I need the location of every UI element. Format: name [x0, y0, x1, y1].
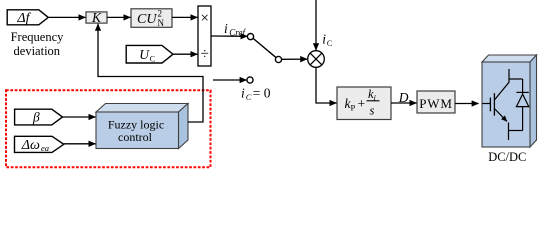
svg-text:U: U: [139, 47, 150, 62]
label D: [398, 90, 409, 105]
svg-text:CU: CU: [137, 12, 157, 27]
wire CU2N to multiplier: [172, 16, 198, 18]
switch pole circle: [275, 56, 281, 62]
wire multiplier output iCref: [211, 35, 248, 37]
label iCref: [224, 21, 246, 38]
switch contact circle top: [247, 34, 253, 40]
diode D1: [516, 79, 528, 131]
IGBT Q1 body bar: [493, 93, 495, 115]
wire iC from top: [315, 0, 317, 50]
IGBT Q1 gate lead: [482, 103, 490, 105]
wire K to CU2N: [107, 16, 131, 18]
PI controller block kP + ki/s: [337, 87, 391, 120]
svg-text:β: β: [32, 109, 40, 124]
multiply-divide block: [198, 6, 211, 66]
svg-text:N: N: [158, 18, 165, 28]
svg-text:÷: ÷: [201, 47, 209, 63]
svg-text:Δω: Δω: [21, 138, 40, 153]
wire fuzzy feedback to K: [98, 24, 203, 122]
multiplier mixer circle: [308, 51, 325, 68]
svg-text:Frequency: Frequency: [11, 30, 65, 44]
label DC/DC: [488, 150, 526, 164]
PWM block: [417, 91, 455, 113]
svg-text:deviation: deviation: [14, 44, 61, 58]
wire β to fuzzy: [63, 116, 96, 118]
svg-text:PWM: PWM: [419, 96, 452, 111]
input tag UC: [126, 45, 173, 63]
switch blade: [253, 38, 276, 57]
input tag β: [15, 109, 63, 125]
input tag Δf: [7, 10, 48, 26]
block CU²N: [131, 9, 172, 29]
label Frequency deviation: [11, 30, 65, 58]
wire PWM to DC/DC: [455, 103, 479, 105]
wire Δω to fuzzy: [64, 143, 96, 145]
DC/DC converter 3D box: [482, 55, 537, 147]
svg-text:i: i: [322, 32, 326, 47]
svg-text:P: P: [351, 103, 356, 113]
svg-text:i: i: [241, 85, 245, 100]
svg-text:D: D: [398, 90, 409, 105]
fuzzy logic control 3D box: [96, 104, 188, 149]
wire iC = 0 branch: [213, 79, 247, 81]
wire Δf to K: [48, 16, 85, 18]
label iC: [322, 32, 332, 49]
svg-text:2: 2: [158, 9, 163, 19]
svg-text:control: control: [118, 130, 153, 144]
svg-text:s: s: [370, 104, 375, 118]
svg-text:C: C: [327, 39, 332, 48]
svg-text:C: C: [246, 92, 252, 102]
svg-text:ea: ea: [41, 143, 49, 153]
svg-text:+: +: [358, 96, 366, 111]
input tag Δω_ea: [15, 136, 64, 153]
switch contact circle bottom: [247, 77, 253, 83]
svg-text:C: C: [150, 54, 155, 63]
IGBT Q1 emitter with arrow: [494, 109, 508, 141]
wire top rail: [509, 78, 523, 80]
svg-text:i: i: [224, 21, 228, 36]
svg-text:×: ×: [200, 11, 208, 27]
svg-text:= 0: = 0: [253, 85, 271, 100]
label iC = 0: [241, 85, 271, 102]
red dashed boundary box: [6, 90, 211, 167]
IGBT Q1 gate bar: [489, 98, 491, 112]
svg-text:Δf: Δf: [16, 11, 31, 26]
svg-text:K: K: [91, 10, 102, 25]
wire mixer to PI block: [316, 67, 337, 103]
wire bottom rail: [509, 130, 523, 132]
wire pole to mixer: [281, 58, 307, 60]
IGBT Q1 collector: [494, 69, 509, 100]
svg-text:Cref: Cref: [229, 28, 246, 38]
wire UC to divider: [173, 53, 198, 55]
svg-text:DC/DC: DC/DC: [488, 150, 526, 164]
gain block K: [86, 10, 107, 25]
wire PI to PWM, label D: [391, 102, 417, 104]
